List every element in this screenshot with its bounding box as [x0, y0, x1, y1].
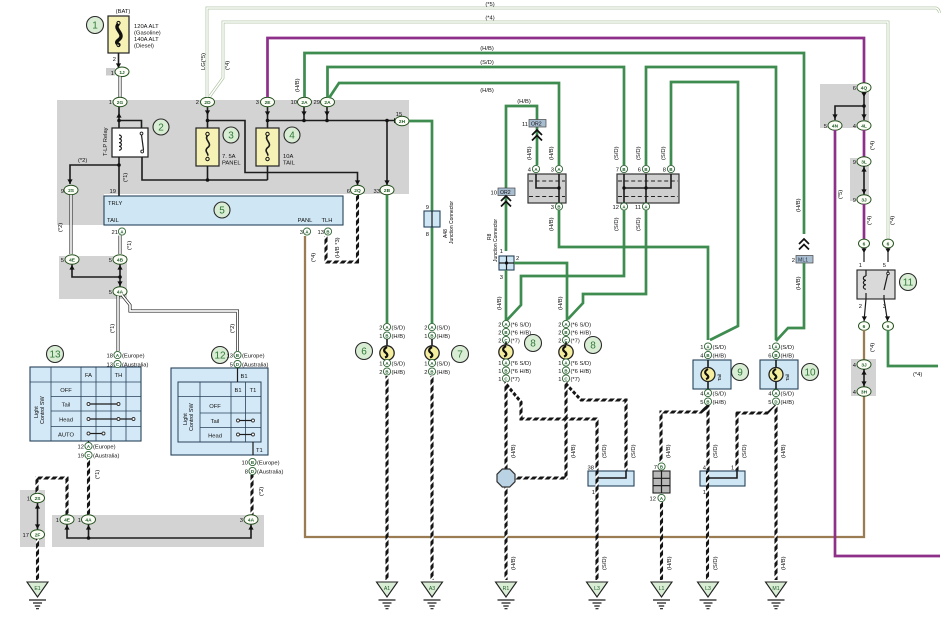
designator 3	[223, 127, 239, 143]
svg-text:1: 1	[700, 345, 703, 351]
svg-text:(S/D): (S/D)	[631, 444, 637, 458]
svg-text:(*6 S/D): (*6 S/D)	[511, 323, 532, 329]
svg-text:6: 6	[638, 168, 641, 174]
svg-text:2: 2	[558, 339, 561, 345]
svg-text:T-LP Relay: T-LP Relay	[103, 127, 109, 156]
svg-text:A1: A1	[384, 586, 390, 592]
pin 33(2B)	[374, 185, 394, 195]
svg-text:1: 1	[768, 345, 771, 351]
svg-text:(*4): (*4)	[913, 372, 922, 378]
svg-text:4E: 4E	[64, 518, 71, 524]
connector oval 6 below relay pin 2	[859, 299, 870, 330]
splice octagon	[497, 469, 515, 487]
wire striped lamp 10 S/D to connector 1	[737, 406, 776, 471]
svg-text:11: 11	[522, 122, 528, 128]
gray box 2S/2F connector background	[20, 490, 45, 547]
wire striped lamp 8a H/B to ground R1 through splice	[506, 382, 517, 580]
pin 1(2G)	[109, 97, 127, 117]
svg-text:6: 6	[863, 324, 866, 330]
svg-text:2: 2	[196, 100, 199, 106]
wire white 5(4A) branch to switch 12 pin 13(B)	[122, 295, 238, 351]
svg-text:(*1): (*1)	[110, 324, 116, 333]
svg-text:B: B	[669, 167, 672, 172]
svg-text:(Europe): (Europe)	[257, 461, 280, 467]
link 3L to 3J	[861, 166, 866, 195]
svg-text:3J: 3J	[861, 363, 867, 369]
svg-text:(*4): (*4)	[225, 61, 231, 70]
svg-text:120A ALT: 120A ALT	[134, 24, 159, 30]
wire striped connector to ground L3 right	[708, 471, 720, 580]
svg-text:(H/B): (H/B)	[558, 296, 564, 310]
wire (*4) from 2(2D) to relay 11 pin 5	[210, 16, 896, 240]
svg-text:4: 4	[700, 354, 704, 360]
designator 10	[802, 364, 819, 381]
pin 1(4A) bottom	[78, 515, 96, 525]
svg-text:(H/B): (H/B)	[392, 370, 406, 376]
svg-text:(*7): (*7)	[511, 339, 520, 345]
wire striped connector to ground L3	[597, 471, 608, 580]
integration relay 5 blue box	[104, 196, 343, 225]
svg-text:(H/B): (H/B)	[517, 99, 531, 105]
wire striped lamp 10 H/B to ground M1	[776, 405, 787, 580]
lamp 10 rear combination tail	[760, 343, 798, 406]
svg-text:4E: 4E	[69, 258, 76, 264]
wire green bridge R8 to 11 OR2 to 4(A)	[506, 99, 537, 251]
svg-text:2B: 2B	[384, 188, 391, 194]
svg-text:ML1: ML1	[798, 258, 808, 264]
svg-text:1: 1	[498, 361, 501, 367]
svg-text:B: B	[504, 368, 507, 373]
svg-text:2E: 2E	[265, 100, 272, 106]
relay 2 T-LP Relay	[103, 127, 148, 157]
wire striped 12(A) to ground L1	[662, 502, 674, 580]
connector block C gray	[528, 174, 566, 203]
lamp 9 rear combination tail	[693, 343, 731, 406]
svg-text:(H/B): (H/B)	[667, 556, 673, 570]
connector oval 6 above relay pin 1	[859, 239, 870, 262]
wire bus from 1(2G) to relay 2	[117, 105, 141, 135]
svg-text:(*1): (*1)	[95, 470, 101, 479]
designator 8a	[525, 335, 542, 352]
svg-text:(Australia): (Australia)	[242, 363, 268, 369]
svg-text:D: D	[251, 469, 254, 474]
svg-text:(*6 H/B): (*6 H/B)	[571, 331, 592, 337]
svg-text:OFF: OFF	[209, 404, 221, 410]
svg-text:4Q: 4Q	[861, 86, 868, 92]
svg-text:5: 5	[61, 258, 64, 264]
wire relay 2 output to fuse bottoms	[142, 153, 268, 182]
svg-text:6: 6	[853, 86, 856, 92]
connector 2 ML1	[792, 239, 813, 264]
wire purple 9(3J) to relay 11 pin 1	[864, 204, 873, 239]
svg-text:B: B	[644, 167, 647, 172]
svg-text:(H/B): (H/B)	[713, 354, 727, 360]
svg-text:B: B	[504, 330, 507, 335]
svg-text:AUTO: AUTO	[58, 433, 74, 439]
ground E1	[27, 582, 48, 609]
svg-text:8: 8	[530, 339, 536, 350]
svg-text:11: 11	[903, 278, 914, 289]
wire striped lamp 9 H/B to 7(B)	[661, 406, 708, 462]
lamp 7 front position	[424, 323, 450, 376]
svg-text:(*5): (*5)	[485, 2, 494, 8]
svg-text:L3: L3	[705, 586, 711, 592]
svg-text:B: B	[430, 333, 433, 338]
svg-text:9: 9	[737, 368, 743, 379]
wire green 12(A) to lamp 8a diagonal	[507, 210, 624, 320]
svg-text:(S/D): (S/D)	[742, 444, 748, 458]
svg-text:5: 5	[883, 263, 886, 269]
fuse 4 10A TAIL	[256, 128, 296, 167]
designator 1	[87, 17, 104, 34]
pin 3(A) below PANL	[300, 228, 311, 236]
svg-text:4: 4	[768, 392, 772, 398]
svg-text:9: 9	[426, 205, 429, 211]
svg-text:(S/D): (S/D)	[437, 326, 451, 332]
svg-text:B: B	[385, 333, 388, 338]
pin 8(B) block D	[663, 165, 675, 173]
svg-text:(S/D): (S/D)	[781, 345, 795, 351]
connector 11 OR2	[522, 120, 546, 141]
svg-text:4: 4	[700, 392, 704, 398]
pin 6(2Q)	[347, 185, 365, 195]
svg-text:FA: FA	[85, 373, 92, 379]
wire green (H/B) 29(2A) to connector 3(A)	[329, 83, 559, 165]
svg-text:1: 1	[498, 377, 501, 383]
svg-text:(Gasoline): (Gasoline)	[134, 31, 161, 37]
svg-text:(*4): (*4)	[890, 216, 896, 225]
svg-text:(S/D): (S/D)	[614, 217, 620, 231]
svg-text:29: 29	[314, 100, 320, 106]
junction connector A48	[424, 201, 455, 244]
link 2S to 2F	[35, 503, 40, 530]
svg-text:(*2): (*2)	[58, 223, 64, 232]
lamp 8b rear side marker	[558, 320, 591, 383]
svg-text:(H/B): (H/B)	[511, 556, 517, 570]
svg-text:(Australia): (Australia)	[257, 470, 283, 476]
svg-text:5: 5	[824, 124, 827, 130]
svg-text:2D: 2D	[204, 100, 211, 106]
wire green relay pin 3 output	[888, 330, 938, 378]
light control switch 13	[30, 367, 141, 441]
svg-text:12: 12	[613, 205, 619, 211]
svg-text:OR2: OR2	[531, 122, 542, 128]
pin 13(B) below TLH	[318, 228, 332, 236]
blue connector 4/1	[700, 466, 745, 497]
svg-text:5: 5	[768, 400, 771, 406]
pin 1(2S)	[27, 493, 45, 503]
wire striped lamp 8a S/D to connector 38	[506, 384, 608, 471]
svg-text:(S/D): (S/D)	[602, 444, 608, 458]
svg-text:1: 1	[424, 334, 427, 340]
svg-text:3J: 3J	[861, 198, 867, 204]
svg-text:(H/B): (H/B)	[666, 444, 672, 458]
designator 12	[212, 347, 229, 364]
svg-text:19: 19	[110, 189, 116, 195]
svg-text:(S/D): (S/D)	[661, 146, 667, 160]
svg-text:6: 6	[768, 354, 771, 360]
pin 17(2F)	[23, 530, 45, 540]
connector oval 6 below relay pin 3	[883, 299, 894, 330]
svg-text:Control SW: Control SW	[189, 403, 195, 431]
svg-text:1: 1	[379, 334, 382, 340]
wire green 3(B) to lamp 9	[549, 210, 708, 340]
pin 5(4B)	[109, 255, 127, 265]
svg-text:11: 11	[635, 205, 641, 211]
svg-text:3H: 3H	[861, 390, 868, 396]
svg-text:(H/B): (H/B)	[781, 556, 787, 570]
svg-text:(H/B): (H/B)	[796, 198, 802, 212]
wire striped lamp 7 to ground A3	[430, 376, 433, 580]
gray box 4E/4B/4A connector background	[59, 256, 127, 299]
designator 4	[284, 127, 300, 143]
pin 4(4L)	[853, 121, 871, 131]
svg-text:6: 6	[887, 242, 890, 248]
svg-text:T1: T1	[250, 388, 257, 394]
svg-text:(*6 H/B): (*6 H/B)	[511, 369, 532, 375]
svg-text:12: 12	[650, 497, 656, 503]
svg-text:(Australia): (Australia)	[122, 363, 148, 369]
svg-text:B: B	[430, 369, 433, 374]
svg-text:PANEL: PANEL	[222, 161, 241, 167]
svg-text:Head: Head	[208, 434, 222, 440]
wire green 8(B) to lamp 9 diagonal	[661, 82, 738, 340]
svg-text:1: 1	[592, 490, 595, 496]
svg-text:1: 1	[111, 71, 114, 77]
pin 9(2S)	[61, 185, 78, 195]
svg-text:1: 1	[498, 369, 501, 375]
svg-text:(Europe): (Europe)	[242, 354, 265, 360]
svg-text:(S/D): (S/D)	[392, 326, 406, 332]
svg-text:10: 10	[804, 368, 816, 379]
svg-text:2S: 2S	[68, 188, 75, 194]
svg-text:2H: 2H	[399, 119, 406, 125]
svg-text:(S/D): (S/D)	[781, 392, 795, 398]
lamp 8a rear side marker	[498, 320, 531, 383]
svg-text:(*4): (*4)	[870, 141, 876, 150]
wire white 5(4A) to switch 13 pin 18(A)	[110, 296, 118, 351]
svg-text:8: 8	[426, 232, 429, 238]
pin 21(A) below TAIL	[112, 228, 126, 236]
wire green 33(2B) to lamp 6	[386, 195, 389, 323]
gray box 3L/3J background	[850, 158, 869, 201]
svg-text:B1: B1	[241, 374, 248, 380]
switch 13 top pins 18(A) 13(C)	[107, 351, 149, 368]
svg-text:2F: 2F	[35, 533, 41, 539]
svg-text:9: 9	[853, 160, 856, 166]
svg-text:Control SW: Control SW	[40, 396, 46, 424]
svg-text:(*2): (*2)	[259, 487, 265, 496]
svg-text:M1: M1	[772, 586, 779, 592]
svg-text:B: B	[622, 167, 625, 172]
wire relay 2 coil to 9(2S) and pin 19	[67, 150, 120, 196]
svg-text:B: B	[326, 229, 329, 234]
lamp 6 front position	[379, 323, 405, 376]
pin 3(4A) bottom	[240, 515, 258, 525]
svg-text:140A ALT: 140A ALT	[134, 37, 159, 43]
svg-text:(S/D): (S/D)	[636, 146, 642, 160]
pin 4(3H)	[853, 387, 871, 397]
wire purple 4(4L) to 9(3L)	[864, 130, 876, 157]
light control switch 12	[171, 368, 268, 455]
svg-text:(S/D): (S/D)	[614, 146, 620, 160]
connector 10 OR2	[491, 188, 515, 207]
svg-text:6: 6	[361, 347, 367, 358]
svg-text:(H/B): (H/B)	[511, 444, 517, 458]
svg-text:13: 13	[318, 230, 324, 236]
svg-text:10: 10	[242, 461, 248, 467]
svg-text:(S/D): (S/D)	[713, 444, 719, 458]
svg-text:12: 12	[78, 445, 84, 451]
wire striped TLH 13(B) to 6(2Q)	[326, 195, 358, 262]
svg-text:2S: 2S	[35, 496, 42, 502]
fusible link 1 battery (BAT)	[108, 9, 161, 68]
svg-text:5: 5	[700, 400, 703, 406]
svg-text:2: 2	[379, 370, 382, 376]
svg-text:2G: 2G	[117, 100, 124, 106]
svg-text:B: B	[251, 460, 254, 465]
svg-text:R1: R1	[503, 586, 510, 592]
svg-text:3: 3	[500, 275, 503, 281]
svg-text:1: 1	[558, 369, 561, 375]
switch 13 bottom pins 12(A) 19(C)	[78, 441, 120, 460]
svg-text:13: 13	[107, 363, 113, 369]
gray box 4Q/4N/4L background	[820, 84, 869, 128]
ground L3 left	[587, 582, 608, 609]
svg-text:D: D	[774, 399, 777, 404]
link 3J to 3H	[861, 369, 866, 387]
svg-text:2: 2	[498, 339, 501, 345]
ground R1	[496, 582, 517, 609]
relay 11 internals	[859, 263, 890, 310]
pin 2(2D)	[196, 97, 215, 107]
svg-text:PANL: PANL	[298, 218, 313, 224]
pin 9(3L)	[853, 157, 871, 167]
svg-text:1: 1	[500, 249, 503, 255]
wire striped lamp 9 S/D to connector 4	[708, 405, 719, 471]
wire bus 10A fuse top to 3(2E) 10(2A) 29(2A) 33(2B) 15(2H)	[265, 105, 399, 185]
svg-text:(H/B): (H/B)	[796, 276, 802, 290]
svg-text:Head: Head	[59, 418, 73, 424]
svg-text:(H/B): (H/B)	[497, 296, 503, 310]
svg-text:B: B	[564, 368, 567, 373]
ground L1	[651, 582, 672, 609]
wire green R8 pin 3 to lamp 8a	[497, 270, 506, 320]
svg-text:10A: 10A	[283, 154, 293, 160]
svg-text:10: 10	[291, 100, 297, 106]
svg-text:2: 2	[558, 331, 561, 337]
svg-text:B: B	[660, 464, 663, 469]
svg-text:(*6 H/B): (*6 H/B)	[571, 369, 592, 375]
svg-text:1: 1	[424, 362, 427, 368]
wire purple 5(4N) down and right	[835, 130, 940, 556]
svg-text:7. 5A: 7. 5A	[222, 154, 236, 160]
svg-text:1: 1	[731, 466, 734, 472]
pin 6(B) block D	[638, 165, 650, 173]
designator 8b	[585, 337, 602, 354]
svg-text:TH: TH	[115, 373, 123, 379]
svg-text:2A: 2A	[301, 100, 308, 106]
pin 1(4E) bottom	[56, 515, 74, 525]
svg-text:1: 1	[558, 377, 561, 383]
svg-text:Tail: Tail	[211, 419, 220, 425]
svg-text:6: 6	[887, 324, 890, 330]
blue connector 38/1	[588, 466, 634, 497]
svg-text:10: 10	[491, 191, 497, 197]
svg-text:B: B	[706, 353, 709, 358]
pin 3(A) block C	[551, 165, 563, 173]
svg-text:12: 12	[214, 351, 226, 362]
svg-text:5: 5	[230, 363, 233, 369]
svg-text:(*7): (*7)	[571, 339, 580, 345]
svg-text:(S/D): (S/D)	[713, 345, 727, 351]
ground L3 right	[698, 582, 719, 609]
designator 11	[900, 274, 917, 291]
svg-text:(S/D): (S/D)	[392, 362, 406, 368]
svg-text:2Q: 2Q	[354, 188, 361, 194]
svg-text:(H/B *3): (H/B *3)	[335, 237, 341, 258]
switch 12 bottom pins 10(B) 8(D)	[242, 458, 284, 475]
designator 7	[452, 346, 469, 363]
pin 12(A) block D	[613, 203, 628, 211]
svg-text:(S/D): (S/D)	[480, 60, 494, 66]
svg-text:1: 1	[379, 362, 382, 368]
wire striped bridge 1(2S) to 1(4E)	[37, 478, 67, 515]
connector box 4E/4B internal wiring	[69, 263, 122, 287]
wire brown PANL to 4(3H) loop	[305, 236, 864, 537]
svg-text:B: B	[706, 399, 709, 404]
svg-text:(*6 S/D): (*6 S/D)	[571, 323, 592, 329]
svg-text:(H/B): (H/B)	[549, 217, 555, 231]
wire striped 8(D) to 3(4A)	[252, 475, 265, 515]
svg-text:2: 2	[859, 304, 862, 310]
connector 1J	[106, 67, 129, 77]
svg-text:1: 1	[109, 100, 112, 106]
svg-text:3: 3	[256, 100, 259, 106]
svg-text:13: 13	[49, 350, 61, 361]
svg-text:3L: 3L	[861, 160, 867, 166]
wire green 11(A) to lamp 8b diagonal	[568, 210, 646, 319]
svg-text:Junction Connector: Junction Connector	[493, 219, 499, 262]
svg-text:2: 2	[158, 123, 164, 134]
switch 12 top pins 13(B) 5(D)	[227, 351, 269, 368]
wire white (*2) 9(2S) to 5(4E)	[58, 195, 71, 254]
wire white 1J to 1(2G)	[119, 77, 122, 98]
svg-text:8: 8	[245, 470, 248, 476]
relay 11 body background	[857, 270, 895, 299]
svg-text:(S/D): (S/D)	[713, 392, 727, 398]
svg-text:1: 1	[859, 263, 862, 269]
svg-text:(Diesel): (Diesel)	[134, 44, 154, 50]
wire striped lamp 6 to ground A1	[385, 376, 388, 580]
svg-text:1: 1	[703, 490, 706, 496]
wire green R8 pin 2 to lamp 8b	[514, 263, 567, 320]
svg-text:(H/B): (H/B)	[295, 78, 301, 92]
svg-text:4: 4	[528, 168, 532, 174]
svg-text:1: 1	[78, 518, 81, 524]
fuse 3 7.5A PANEL	[196, 128, 241, 167]
svg-text:B: B	[385, 369, 388, 374]
svg-text:(Europe): (Europe)	[122, 354, 145, 360]
svg-text:18: 18	[107, 354, 113, 360]
svg-text:7: 7	[616, 168, 619, 174]
wire striped lamp 8b to splice	[515, 382, 577, 478]
svg-text:(*4): (*4)	[870, 343, 876, 352]
designator 9	[732, 364, 749, 381]
designator 5	[214, 202, 230, 218]
svg-text:(*7): (*7)	[571, 377, 580, 383]
svg-text:(H/B): (H/B)	[527, 146, 533, 160]
